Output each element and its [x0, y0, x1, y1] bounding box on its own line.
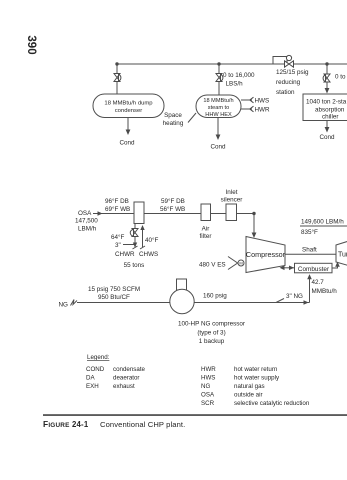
svg-text:835°F: 835°F: [301, 228, 318, 236]
svg-text:SCR: SCR: [201, 400, 215, 407]
svg-text:exhaust: exhaust: [113, 383, 135, 390]
svg-text:Legend:: Legend:: [87, 354, 110, 361]
svg-text:station: station: [276, 89, 295, 96]
svg-text:hot water return: hot water return: [234, 366, 278, 373]
svg-text:15 psig 750 SCFM: 15 psig 750 SCFM: [88, 286, 140, 293]
svg-text:Shaft: Shaft: [302, 247, 317, 254]
svg-text:absorption: absorption: [315, 107, 345, 114]
svg-text:149,600 LBM/h: 149,600 LBM/h: [301, 219, 344, 226]
svg-text:HWS: HWS: [255, 98, 270, 105]
svg-text:147,500: 147,500: [75, 218, 98, 225]
svg-text:160 psig: 160 psig: [203, 293, 227, 300]
svg-text:MMBtu/h: MMBtu/h: [312, 288, 338, 295]
svg-text:HWS: HWS: [201, 375, 215, 382]
svg-text:42.7: 42.7: [312, 279, 325, 286]
svg-text:Cond: Cond: [210, 144, 226, 151]
svg-text:18 MMBtu/h dump: 18 MMBtu/h dump: [104, 101, 153, 107]
svg-text:NG: NG: [201, 383, 210, 390]
svg-text:Space: Space: [164, 112, 182, 119]
svg-text:Conventional CHP plant.: Conventional CHP plant.: [100, 420, 185, 429]
svg-text:55 tons: 55 tons: [124, 262, 145, 269]
svg-text:M: M: [239, 261, 242, 266]
svg-text:390: 390: [25, 35, 37, 54]
svg-text:natural gas: natural gas: [234, 383, 265, 390]
svg-text:Combuster: Combuster: [298, 266, 330, 273]
svg-text:(type of 3): (type of 3): [197, 330, 225, 337]
svg-text:HWR: HWR: [255, 107, 270, 114]
svg-text:0 to: 0 to: [335, 74, 346, 81]
svg-text:0 to 16,000: 0 to 16,000: [223, 72, 255, 79]
svg-text:125/15 psig: 125/15 psig: [276, 69, 309, 76]
svg-text:DA: DA: [86, 375, 95, 382]
svg-text:HHW HEX: HHW HEX: [205, 112, 232, 118]
svg-text:CHWR: CHWR: [115, 251, 135, 258]
svg-text:96°F DB: 96°F DB: [105, 197, 129, 205]
svg-text:COND: COND: [86, 366, 105, 373]
svg-text:outside air: outside air: [234, 392, 263, 399]
svg-text:condensate: condensate: [113, 366, 146, 373]
svg-text:3" NG: 3" NG: [286, 293, 303, 300]
svg-text:Cond: Cond: [319, 134, 335, 141]
svg-text:EXH: EXH: [86, 383, 99, 390]
svg-text:silencer: silencer: [221, 197, 243, 204]
svg-text:OSA: OSA: [201, 392, 215, 399]
svg-text:condenser: condenser: [115, 108, 143, 114]
svg-text:100-HP NG compressor: 100-HP NG compressor: [178, 321, 245, 328]
svg-text:heating: heating: [163, 120, 184, 127]
svg-text:Turbine: Turbine: [338, 252, 347, 259]
svg-text:3": 3": [115, 242, 121, 249]
svg-text:Air: Air: [202, 226, 210, 233]
svg-text:NG: NG: [59, 302, 69, 309]
svg-text:480 V ES: 480 V ES: [199, 262, 226, 269]
svg-text:950 Btu/CF: 950 Btu/CF: [98, 294, 130, 301]
svg-text:69°F WB: 69°F WB: [105, 205, 130, 213]
svg-text:Inlet: Inlet: [226, 189, 238, 196]
svg-text:Cond: Cond: [119, 140, 135, 147]
svg-text:59°F DB: 59°F DB: [161, 197, 185, 205]
svg-text:LBS/h: LBS/h: [226, 81, 244, 88]
svg-text:Compressor: Compressor: [246, 250, 286, 259]
svg-text:deaerator: deaerator: [113, 375, 140, 382]
svg-text:64°F: 64°F: [111, 233, 125, 241]
svg-text:filter: filter: [200, 233, 212, 240]
svg-text:OSA: OSA: [78, 210, 92, 217]
svg-text:HWR: HWR: [201, 366, 216, 373]
svg-text:56°F WB: 56°F WB: [160, 205, 185, 213]
svg-text:reducing: reducing: [276, 79, 301, 86]
svg-text:selective catalytic reduction: selective catalytic reduction: [234, 400, 310, 407]
svg-text:steam to: steam to: [208, 105, 229, 111]
svg-text:chiller: chiller: [322, 114, 338, 121]
svg-text:CHWS: CHWS: [139, 251, 158, 258]
svg-text:hot water supply: hot water supply: [234, 375, 280, 382]
svg-text:1 backup: 1 backup: [199, 338, 225, 345]
svg-text:40°F: 40°F: [145, 236, 159, 244]
svg-text:1040 ton 2-sta: 1040 ton 2-sta: [306, 99, 347, 106]
svg-text:LBM/h: LBM/h: [78, 226, 97, 233]
svg-text:18 MMBtu/h: 18 MMBtu/h: [203, 98, 233, 104]
